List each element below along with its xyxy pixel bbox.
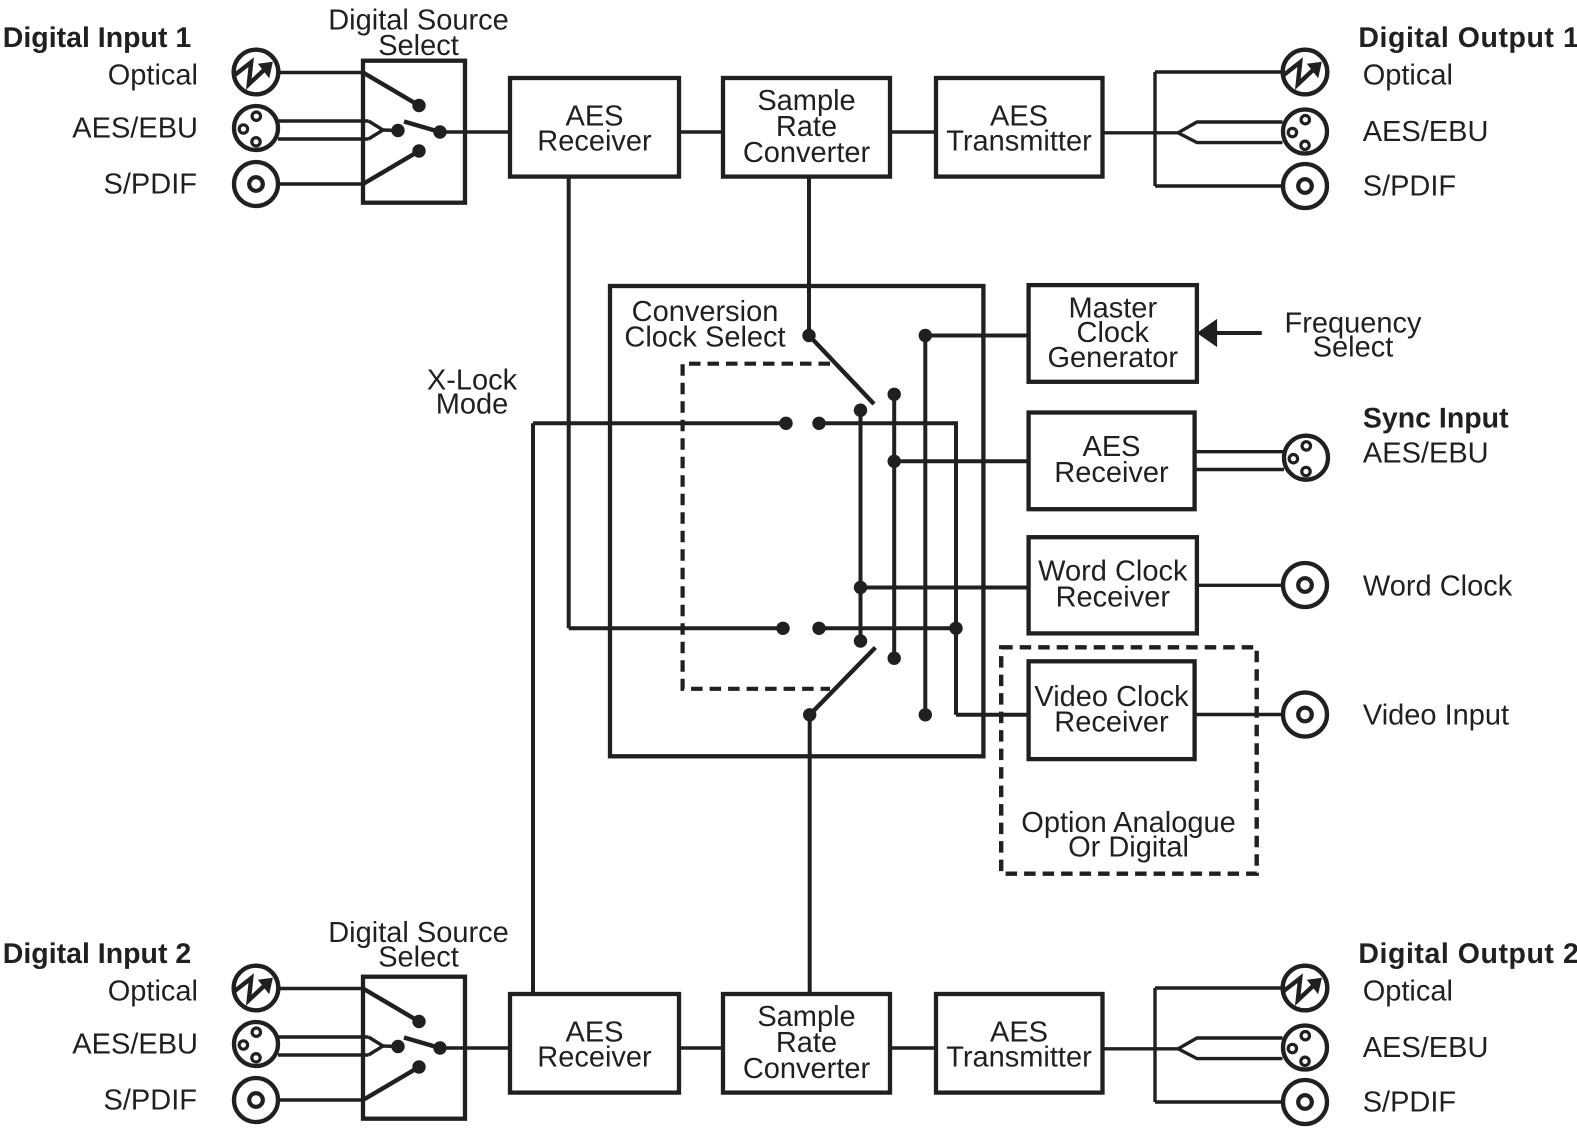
wire output 2 S/PDIF branch xyxy=(1155,1100,1283,1103)
video input connector xyxy=(1283,693,1327,737)
block AES Receiver 1 xyxy=(510,78,679,177)
block Sample Rate Converter 1 xyxy=(723,78,890,177)
wire AES/EBU input 2 to switch contact xyxy=(383,1044,398,1048)
wire sync input pair lower xyxy=(1195,468,1284,471)
wire word clock rail vertical xyxy=(859,410,863,641)
wire AES Receiver 2 to Sample Rate Converter 2 xyxy=(679,1046,723,1049)
wire output 1 optical branch xyxy=(1155,70,1283,73)
switch 1 AES/EBU contact dot xyxy=(391,124,404,137)
word clock connector xyxy=(1283,563,1327,607)
wire switch 2 common to AES Receiver 2 xyxy=(440,1046,510,1049)
wire AES/EBU input 2 pair lower xyxy=(278,1053,369,1056)
wire AES Receiver 1 to Sample Rate Converter 1 xyxy=(679,130,723,133)
digital source select switch box 1 xyxy=(363,61,465,203)
XLR connector AES/EBU output (Digital Output 1) xyxy=(1283,110,1327,154)
wire AES/EBU input 1 pair upper xyxy=(278,119,369,122)
svg-text:AES/EBU: AES/EBU xyxy=(1363,1032,1489,1064)
optical input connector (Digital Input 2) xyxy=(234,966,279,1011)
XLR connector AES/EBU input (Digital Input 2) xyxy=(234,1022,278,1066)
svg-text:Digital Output 1: Digital Output 1 xyxy=(1358,22,1577,54)
switch 1 selector arm (AES/EBU selected) xyxy=(404,122,440,133)
wire output bracket 1 vertical xyxy=(1153,72,1156,186)
node upper word clock contact xyxy=(854,404,867,417)
switch 2 optical arm xyxy=(363,989,419,1022)
switch 2 optical contact dot xyxy=(412,1015,425,1028)
optical output connector (Digital Output 1) xyxy=(1283,50,1328,95)
switch lower arm (SRC2 clock select) xyxy=(810,648,876,715)
node upper X-lock contact (AES RX2 clock) xyxy=(779,417,792,430)
switch 2 S/PDIF contact dot xyxy=(412,1060,425,1073)
wire output 2 optical branch xyxy=(1155,986,1283,989)
svg-text:Video Input: Video Input xyxy=(1363,700,1509,732)
wire video clock rail to Video Clock Receiver xyxy=(956,713,1030,717)
svg-text:ConversionClock Select: ConversionClock Select xyxy=(624,296,785,354)
wire output 1 AES/EBU fork lower xyxy=(1178,133,1283,143)
wire X-lock feed horizontal (upper contact row) xyxy=(533,421,786,425)
wire word clock row to Word Clock Receiver xyxy=(861,586,1031,590)
node lower sync AES contact xyxy=(888,652,901,665)
svg-text:Sync Input: Sync Input xyxy=(1363,402,1509,434)
switch upper arm (SRC1 clock select) xyxy=(809,336,874,405)
wire output 2 AES/EBU fork lower xyxy=(1178,1049,1283,1059)
wire output bracket 2 vertical xyxy=(1153,988,1156,1102)
svg-text:Optical: Optical xyxy=(108,976,198,1008)
node lower X-lock contact (AES RX1 clock) xyxy=(776,622,789,635)
svg-text:AES/EBU: AES/EBU xyxy=(1363,438,1489,470)
conversion clock select enclosure xyxy=(610,286,983,756)
dashed X-lock mode grouping box xyxy=(683,364,830,689)
switch 1 optical arm xyxy=(363,73,419,106)
wire video clock rail (upper contact link) xyxy=(819,423,956,715)
svg-text:Optical: Optical xyxy=(1363,976,1453,1008)
wire master clock row to Master Clock Generator xyxy=(925,334,1030,338)
wire AES Transmitter 2 to output fork xyxy=(1103,1047,1179,1050)
XLR connector AES/EBU input (Digital Input 1) xyxy=(234,106,278,150)
wire lower pivot drop to SRC2 xyxy=(808,715,812,995)
wire SRC1 clock drop to upper pivot xyxy=(807,177,811,336)
wire output 2 AES/EBU fork upper xyxy=(1178,1038,1283,1049)
svg-text:Digital Input 2: Digital Input 2 xyxy=(3,938,191,970)
digital source select switch box 2 xyxy=(363,977,465,1119)
svg-text:Word ClockReceiver: Word ClockReceiver xyxy=(1038,556,1188,614)
wire optical input 1 to source select box xyxy=(279,71,364,74)
node lower master clock contact xyxy=(919,708,932,721)
svg-text:X-LockMode: X-LockMode xyxy=(427,364,518,420)
node upper video clock contact xyxy=(812,417,825,430)
wire sync AES row to AES Receiver (sync) xyxy=(894,459,1030,463)
wire Sample Rate Converter 1 to AES Transmitter 1 xyxy=(890,130,936,133)
switch 2 AES/EBU contact dot xyxy=(391,1040,404,1053)
svg-text:AES/EBU: AES/EBU xyxy=(72,113,198,145)
node upper sync AES contact xyxy=(888,388,901,401)
node sync AES rail junction xyxy=(888,455,901,468)
wire sync input pair upper xyxy=(1195,450,1284,453)
XLR connector AES/EBU output (Digital Output 2) xyxy=(1283,1026,1327,1070)
wire S/PDIF input 1 to source select box xyxy=(279,182,364,185)
svg-text:AES/EBU: AES/EBU xyxy=(1363,116,1489,148)
switch 1 S/PDIF arm xyxy=(363,151,419,184)
svg-text:S/PDIF: S/PDIF xyxy=(1363,1087,1456,1119)
wire AES/EBU input 2 pair convergence xyxy=(369,1037,384,1055)
svg-text:S/PDIF: S/PDIF xyxy=(104,1085,197,1117)
wire Video Clock Receiver to video connector xyxy=(1195,713,1284,716)
svg-text:Word Clock: Word Clock xyxy=(1363,571,1513,603)
XLR connector sync input AES/EBU xyxy=(1284,436,1328,480)
wire AES Receiver 1 clock drop vertical xyxy=(567,177,571,629)
svg-text:S/PDIF: S/PDIF xyxy=(104,169,197,201)
svg-text:Video ClockReceiver: Video ClockReceiver xyxy=(1034,681,1189,739)
block AES Transmitter 1 xyxy=(936,78,1103,177)
wire Word Clock Receiver to word clock connector xyxy=(1197,584,1284,587)
RCA connector S/PDIF output (Digital Output 2) xyxy=(1283,1080,1327,1124)
wire sync AES rail vertical xyxy=(892,394,896,658)
block Sample Rate Converter 2 xyxy=(723,994,890,1093)
switch lower pivot (SRC2 clock select) xyxy=(803,708,816,721)
node upper master clock contact xyxy=(919,329,932,342)
node word clock rail junction xyxy=(854,581,867,594)
wire AES/EBU input 2 pair upper xyxy=(278,1035,369,1038)
wire AES Transmitter 1 to output fork xyxy=(1103,131,1179,134)
switch upper pivot (SRC1 clock select) xyxy=(802,329,815,342)
wire output 1 AES/EBU fork upper xyxy=(1178,122,1283,133)
block AES Receiver (sync input) xyxy=(1029,413,1195,510)
svg-text:Optical: Optical xyxy=(108,60,198,92)
RCA connector S/PDIF input (Digital Input 2) xyxy=(234,1078,278,1122)
wire optical input 2 to source select box xyxy=(279,987,364,990)
RCA connector S/PDIF input (Digital Input 1) xyxy=(234,162,278,206)
wire AES/EBU input 1 pair lower xyxy=(278,137,369,140)
wire master clock rail vertical xyxy=(923,336,927,715)
svg-text:Digital Output 2: Digital Output 2 xyxy=(1358,938,1577,970)
svg-text:Optical: Optical xyxy=(1363,60,1453,92)
switch 2 selector arm (AES/EBU selected) xyxy=(404,1038,440,1049)
node video rail junction with lower row xyxy=(949,622,962,635)
wire lower contact row to video rail xyxy=(819,626,956,630)
svg-text:AES/EBU: AES/EBU xyxy=(72,1029,198,1061)
block Master Clock Generator xyxy=(1029,285,1197,382)
switch 1 S/PDIF contact dot xyxy=(412,144,425,157)
wire Sample Rate Converter 2 to AES Transmitter 2 xyxy=(890,1046,936,1049)
block Video Clock Receiver xyxy=(1029,661,1195,759)
svg-text:S/PDIF: S/PDIF xyxy=(1363,171,1456,203)
node lower word clock contact xyxy=(854,634,867,647)
block AES Transmitter 2 xyxy=(936,994,1103,1093)
node lower video clock contact xyxy=(812,622,825,635)
switch 2 S/PDIF arm xyxy=(363,1067,419,1100)
wire AES Receiver 1 clock to lower X-lock contact xyxy=(569,626,783,630)
dashed option analogue-or-digital grouping box xyxy=(1001,647,1256,873)
wire AES/EBU input 1 to switch contact xyxy=(383,128,398,132)
wire X-lock vertical to AES Receiver 2 xyxy=(531,423,535,995)
wire AES/EBU input 1 pair convergence xyxy=(369,121,384,139)
wire output 1 S/PDIF branch xyxy=(1155,184,1283,187)
wire S/PDIF input 2 to source select box xyxy=(279,1098,364,1101)
block AES Receiver 2 xyxy=(510,994,679,1093)
switch 2 common pivot dot xyxy=(433,1041,446,1054)
switch 1 common pivot dot xyxy=(433,125,446,138)
switch 1 optical contact dot xyxy=(412,99,425,112)
frequency select arrow into Master Clock Generator xyxy=(1197,319,1262,347)
optical output connector (Digital Output 2) xyxy=(1283,966,1328,1011)
optical input connector (Digital Input 1) xyxy=(234,50,279,95)
wire switch 1 common to AES Receiver 1 xyxy=(440,130,510,133)
RCA connector S/PDIF output (Digital Output 1) xyxy=(1283,164,1327,208)
block Word Clock Receiver xyxy=(1029,537,1197,633)
svg-text:Digital Input 1: Digital Input 1 xyxy=(3,22,192,54)
